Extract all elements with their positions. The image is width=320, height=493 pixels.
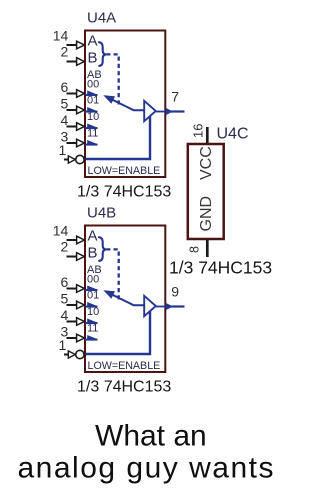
pin 4 wire <box>67 321 79 323</box>
brace grouping A and B <box>99 42 106 66</box>
brace grouping A and B <box>99 237 106 261</box>
svg-text:LOW=ENABLE: LOW=ENABLE <box>88 165 161 177</box>
pin 1 enable wire <box>64 159 70 161</box>
svg-text:LOW=ENABLE: LOW=ENABLE <box>88 360 161 372</box>
mux wiper arrowhead <box>103 290 115 299</box>
svg-text:U4C: U4C <box>217 126 249 143</box>
internal wire arrow for input 00 <box>85 289 98 291</box>
svg-text:7: 7 <box>171 89 179 105</box>
pin 2 wire <box>67 256 79 258</box>
internal wire arrow for input 11 <box>85 339 98 341</box>
svg-text:10: 10 <box>87 306 99 318</box>
svg-text:B: B <box>88 50 98 67</box>
pin 2 wire <box>67 61 79 63</box>
pin 5 wire <box>67 304 79 306</box>
output wire to border <box>156 111 166 113</box>
svg-text:U4A: U4A <box>87 10 116 27</box>
svg-text:1/3 74HC153: 1/3 74HC153 <box>77 184 171 201</box>
pin 3 arrowhead <box>77 139 85 147</box>
svg-text:2: 2 <box>61 239 69 255</box>
output wire to border <box>156 306 166 308</box>
pin 4 arrowhead <box>77 318 85 326</box>
pin 1 enable wire <box>64 354 70 356</box>
pin 1 inversion bubble <box>76 350 84 358</box>
svg-text:A: A <box>88 33 98 50</box>
VCC pin 16 wire <box>206 127 209 145</box>
pin 2 arrowhead <box>77 58 85 66</box>
pin 5 wire <box>67 109 79 111</box>
GND pin 8 wire <box>206 240 209 257</box>
svg-text:VCC: VCC <box>198 146 215 180</box>
internal wire arrow for input 10 <box>85 127 98 129</box>
internal wire arrow for input 10 <box>85 322 98 324</box>
IC U4A 74HC153 mux section body <box>85 31 165 178</box>
svg-text:What an: What an <box>95 420 207 453</box>
internal wire arrow for input 00 <box>85 94 98 96</box>
svg-text:1: 1 <box>59 337 67 353</box>
pin 14 arrowhead <box>77 236 85 244</box>
output arrowhead <box>166 303 173 310</box>
svg-text:6: 6 <box>61 274 69 290</box>
pin 3 wire <box>67 337 79 339</box>
svg-text:4: 4 <box>61 112 69 128</box>
IC U4C power section body <box>188 144 224 239</box>
svg-text:16: 16 <box>191 124 206 138</box>
mux wiper arrow shaft <box>109 98 145 110</box>
svg-text:14: 14 <box>53 28 69 44</box>
svg-text:GND: GND <box>198 196 215 232</box>
pin 4 wire <box>67 126 79 128</box>
svg-text:6: 6 <box>61 79 69 95</box>
svg-text:11: 11 <box>87 323 98 335</box>
IC U4B 74HC153 mux section body <box>85 226 165 373</box>
output arrowhead <box>166 108 173 115</box>
pin 6 arrowhead <box>77 285 85 293</box>
svg-text:00: 00 <box>87 79 99 91</box>
pin 6 wire <box>67 93 79 95</box>
pin 2 arrowhead <box>77 253 85 261</box>
output stub wire <box>171 305 185 307</box>
internal wire arrow for input 01 <box>85 111 98 113</box>
svg-text:analog guy wants: analog guy wants <box>18 452 276 485</box>
enable wire from bubble to buffer <box>86 311 151 354</box>
svg-text:1/3 74HC153: 1/3 74HC153 <box>169 258 272 278</box>
pin 5 arrowhead <box>77 106 85 114</box>
internal wire arrow for input 01 <box>85 306 98 308</box>
pin 1 arrowhead <box>68 351 75 358</box>
svg-text:14: 14 <box>53 223 69 239</box>
output buffer triangle <box>144 101 156 121</box>
select bus dashed wire <box>106 249 119 302</box>
pin 4 arrowhead <box>77 123 85 131</box>
pin 14 arrowhead <box>77 41 85 49</box>
svg-text:00: 00 <box>87 274 99 286</box>
svg-text:9: 9 <box>171 284 179 300</box>
svg-text:1: 1 <box>59 142 67 158</box>
svg-text:8: 8 <box>188 246 202 253</box>
svg-text:01: 01 <box>87 290 99 302</box>
svg-text:10: 10 <box>87 111 99 123</box>
pin 6 wire <box>67 288 79 290</box>
output buffer triangle <box>144 296 156 316</box>
svg-text:01: 01 <box>87 95 99 107</box>
pin 6 arrowhead <box>77 90 85 98</box>
pin 3 arrowhead <box>77 334 85 342</box>
svg-text:A: A <box>88 228 98 245</box>
svg-text:2: 2 <box>61 44 69 60</box>
pin 5 arrowhead <box>77 301 85 309</box>
svg-text:B: B <box>88 245 98 262</box>
svg-text:1/3 74HC153: 1/3 74HC153 <box>77 379 171 396</box>
svg-text:11: 11 <box>87 128 98 140</box>
select bus dashed wire <box>106 54 119 107</box>
mux wiper arrowhead <box>103 95 115 104</box>
mux wiper arrow shaft <box>109 293 145 305</box>
pin 14 wire <box>67 239 79 241</box>
svg-text:5: 5 <box>61 95 69 111</box>
svg-text:5: 5 <box>61 290 69 306</box>
pin 1 arrowhead <box>68 156 75 163</box>
svg-text:U4B: U4B <box>87 205 116 222</box>
output stub wire <box>171 110 185 112</box>
enable wire from bubble to buffer <box>86 116 151 159</box>
internal wire arrow for input 11 <box>85 144 98 146</box>
svg-text:4: 4 <box>61 307 69 323</box>
pin 14 wire <box>67 44 79 46</box>
pin 1 inversion bubble <box>76 155 84 163</box>
pin 3 wire <box>67 142 79 144</box>
